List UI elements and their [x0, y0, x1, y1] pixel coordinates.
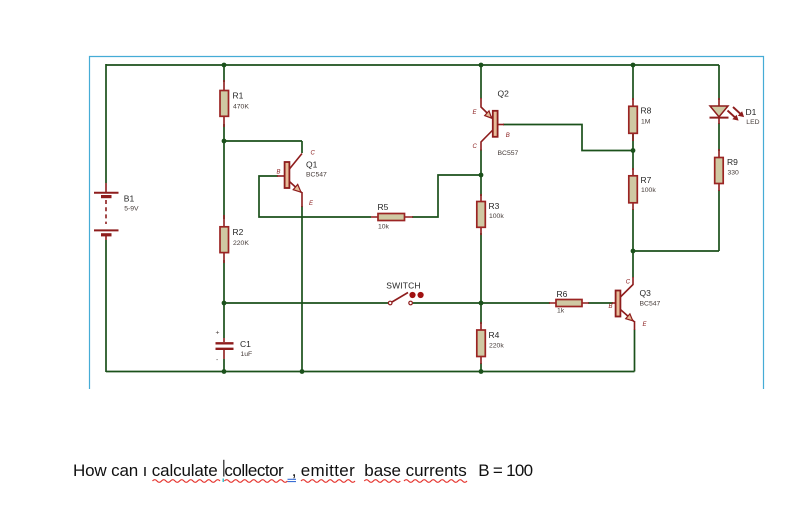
svg-text:R8: R8: [641, 106, 652, 116]
svg-text:R6: R6: [557, 289, 568, 299]
svg-text:LED: LED: [746, 119, 759, 126]
svg-text:470K: 470K: [233, 104, 249, 111]
svg-text:R7: R7: [641, 175, 652, 185]
svg-text:E: E: [309, 201, 314, 207]
svg-text:SWITCH: SWITCH: [386, 280, 420, 290]
svg-text:100k: 100k: [489, 213, 504, 220]
svg-text:D1: D1: [746, 107, 757, 117]
svg-text:1uF: 1uF: [241, 351, 253, 358]
svg-text:R2: R2: [233, 227, 244, 237]
svg-text:220k: 220k: [489, 342, 504, 349]
svg-text:-: -: [216, 357, 218, 364]
svg-text:R5: R5: [378, 202, 389, 212]
svg-text:R9: R9: [727, 157, 738, 167]
svg-text:330: 330: [728, 170, 740, 177]
svg-text:C1: C1: [240, 339, 251, 349]
svg-text:BC557: BC557: [498, 150, 519, 157]
svg-text:base currents: base currents: [364, 461, 466, 480]
svg-text:BC547: BC547: [306, 172, 327, 179]
svg-text:B: B: [609, 304, 613, 310]
svg-text:B: B: [506, 133, 510, 139]
svg-text:How can ı calculate: How can ı calculate: [73, 461, 218, 480]
svg-text:5-9V: 5-9V: [124, 205, 139, 212]
svg-text:Q2: Q2: [498, 88, 510, 98]
svg-text:R3: R3: [489, 201, 500, 211]
svg-text:emitter: emitter: [301, 461, 355, 480]
svg-text:R4: R4: [489, 330, 500, 340]
svg-text:C: C: [311, 151, 316, 157]
svg-text:collector: collector: [224, 461, 284, 480]
svg-text:C: C: [473, 144, 478, 150]
svg-text:E: E: [643, 322, 648, 328]
svg-text:10k: 10k: [378, 224, 390, 231]
svg-text:1M: 1M: [641, 119, 651, 126]
svg-text:+: +: [216, 330, 220, 337]
svg-text:220K: 220K: [233, 240, 249, 247]
svg-text:B = 100: B = 100: [478, 461, 532, 480]
svg-text:1k: 1k: [557, 308, 565, 315]
svg-text:Q1: Q1: [306, 160, 318, 170]
svg-text:B1: B1: [124, 194, 135, 204]
svg-text:E: E: [473, 110, 478, 116]
svg-text:BC547: BC547: [640, 301, 661, 308]
svg-text:100k: 100k: [641, 187, 656, 194]
svg-text:,: ,: [292, 461, 297, 480]
svg-text:R1: R1: [233, 91, 244, 101]
svg-text:B: B: [277, 170, 281, 176]
svg-text:C: C: [626, 280, 631, 286]
svg-text:Q3: Q3: [640, 288, 652, 298]
